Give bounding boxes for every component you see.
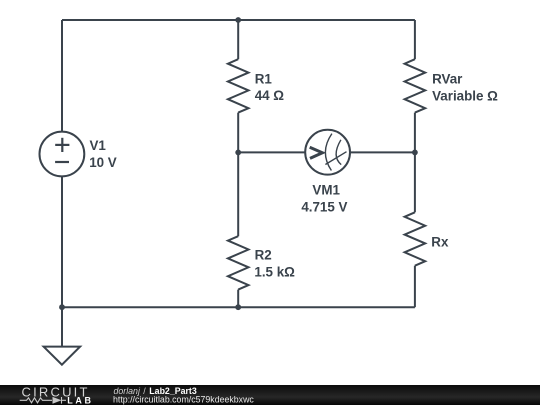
node bottom left junction: [59, 304, 65, 310]
wire left branch lower: [61, 176, 63, 307]
resistor R2: [237, 152, 239, 236]
wire bottom horizontal: [62, 306, 415, 308]
svg-text:4.715 V: 4.715 V: [301, 199, 347, 214]
resistor RVar: [414, 20, 416, 59]
svg-text:RVar: RVar: [432, 72, 463, 87]
svg-text:Variable Ω: Variable Ω: [432, 88, 498, 103]
svg-text:VM1: VM1: [312, 182, 340, 197]
svg-text:V1: V1: [90, 138, 107, 153]
wire ground lead: [61, 307, 63, 346]
svg-text:R2: R2: [255, 248, 272, 263]
svg-text:http://circuitlab.com/c579kdee: http://circuitlab.com/c579kdeekbxwc: [113, 394, 254, 404]
resistor Rx: [414, 152, 416, 212]
ground: [44, 347, 81, 365]
node middle junction: [235, 150, 241, 156]
wire top horizontal: [62, 19, 415, 21]
resistor R1: [237, 20, 239, 59]
voltage source V1: [40, 132, 85, 177]
svg-text:10 V: 10 V: [89, 155, 117, 170]
wire middle right (VM1 to right branch): [350, 151, 415, 153]
svg-text:44 Ω: 44 Ω: [255, 88, 285, 103]
voltmeter VM1: [305, 130, 350, 175]
svg-text:Rx: Rx: [431, 235, 449, 250]
node right middle junction: [412, 150, 418, 156]
wire middle left (node to VM1): [238, 151, 305, 153]
footer bar: [0, 385, 540, 405]
svg-text:1.5 kΩ: 1.5 kΩ: [254, 265, 295, 280]
logo symbol: resistor zigzag + diode: [20, 397, 66, 404]
node bottom middle junction: [235, 304, 241, 310]
svg-text:R1: R1: [255, 72, 273, 87]
svg-text:LAB: LAB: [67, 395, 93, 405]
wire left branch upper: [61, 20, 63, 132]
node top junction: [235, 17, 241, 23]
